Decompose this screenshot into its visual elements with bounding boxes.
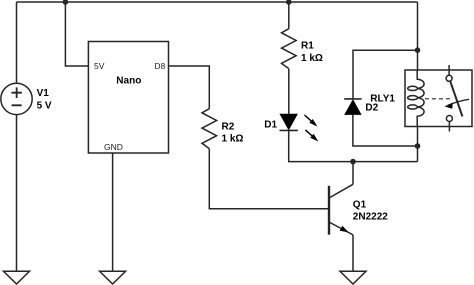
wire top rail <box>17 1 418 3</box>
relay dashed link <box>425 98 451 100</box>
svg-text:D1: D1 <box>264 120 277 131</box>
relay coil <box>417 70 424 127</box>
wire D8 pin to R2 <box>169 66 210 109</box>
svg-text:5V: 5V <box>94 61 105 71</box>
wire R2 to Q1 base <box>209 149 329 209</box>
ground (V1) <box>4 271 30 284</box>
transistor Q1 <box>328 186 330 235</box>
svg-text:1 kΩ: 1 kΩ <box>222 134 244 145</box>
svg-text:1 kΩ: 1 kΩ <box>301 53 323 64</box>
svg-text:R1: R1 <box>301 41 314 52</box>
wire left vertical from rail to V1 <box>16 2 18 83</box>
wire Nano GND to ground <box>112 153 114 271</box>
diode D2 <box>344 98 361 100</box>
relay switch contacts <box>446 75 452 81</box>
svg-text:D8: D8 <box>154 61 165 71</box>
wire coil bottom to lower rail <box>417 127 419 162</box>
relay switch arrow <box>448 99 470 105</box>
svg-text:V1: V1 <box>37 88 50 99</box>
wire rail to R1 <box>288 2 290 29</box>
wire rail to Nano 5V pin <box>65 2 88 66</box>
LED D1 light arrows <box>305 115 313 137</box>
wire Q1 emitter to ground <box>352 235 354 271</box>
wire V1 bottom to ground <box>16 115 18 272</box>
voltage source V1 <box>1 83 32 114</box>
relay switch blade <box>450 82 462 117</box>
svg-text:D2: D2 <box>365 102 378 113</box>
svg-text:GND: GND <box>104 142 123 152</box>
node D2 bottom junction <box>415 143 421 149</box>
svg-text:Q1: Q1 <box>353 199 367 210</box>
wire junction to Q1 collector <box>352 162 354 185</box>
svg-text:Nano: Nano <box>116 76 141 87</box>
wire R1 to D1 <box>288 69 290 115</box>
LED D1 <box>280 114 297 129</box>
relay RLY1 box <box>405 70 472 127</box>
wire D1 to collector rail <box>289 130 418 161</box>
node on top rail to R1 <box>286 0 292 5</box>
ground (Nano GND) <box>100 271 126 284</box>
svg-text:2N2222: 2N2222 <box>353 212 388 223</box>
ground (Q1 emitter) <box>340 271 366 284</box>
resistor R2 <box>202 109 217 149</box>
node on top rail to 5V pin <box>63 0 69 5</box>
resistor R1 <box>282 29 297 69</box>
wire right vertical from rail to relay coil <box>417 2 419 70</box>
node collector junction <box>350 159 356 165</box>
wire junction to D2 <box>353 50 418 99</box>
svg-text:5 V: 5 V <box>37 100 52 111</box>
wire D2 to coil bottom junction <box>353 114 418 146</box>
node D2 top junction <box>415 47 421 53</box>
op-amp U1 Nano module box <box>88 42 168 154</box>
svg-text:R2: R2 <box>222 121 235 132</box>
